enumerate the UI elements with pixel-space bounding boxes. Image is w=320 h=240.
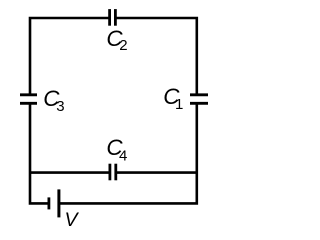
svg-text:V: V: [65, 209, 80, 231]
battery V negative (short) plate: [48, 197, 51, 209]
wire middle-right: C4 right plate to right wire: [116, 171, 197, 174]
svg-text:3: 3: [56, 98, 64, 115]
wire left: C3 bottom plate down to bottom-left corner then to battery: [30, 103, 49, 204]
capacitor C1 top plate: [190, 93, 208, 96]
svg-text:4: 4: [119, 147, 127, 164]
battery V positive (tall) plate: [57, 189, 60, 217]
wire bottom-right: battery tall plate to bottom-right corner up to C1 bottom plate: [59, 103, 197, 204]
svg-text:2: 2: [119, 37, 127, 54]
capacitor C2 right plate: [114, 9, 117, 26]
wire top-left: C2 left plate to top-left corner to C3 top plate: [30, 18, 110, 96]
svg-text:1: 1: [175, 96, 183, 113]
capacitor C3 bottom plate: [20, 102, 37, 105]
capacitor C3 top plate: [20, 93, 37, 96]
capacitor C1 bottom plate: [190, 102, 208, 105]
capacitor C4 left plate: [109, 164, 112, 181]
capacitor C2 left plate: [108, 9, 111, 26]
wire top-right: C2 right plate to top-right corner to C1 top plate: [115, 18, 196, 96]
wire middle-left: left wire to C4 left plate: [30, 171, 110, 174]
capacitor C4 right plate: [114, 164, 117, 181]
